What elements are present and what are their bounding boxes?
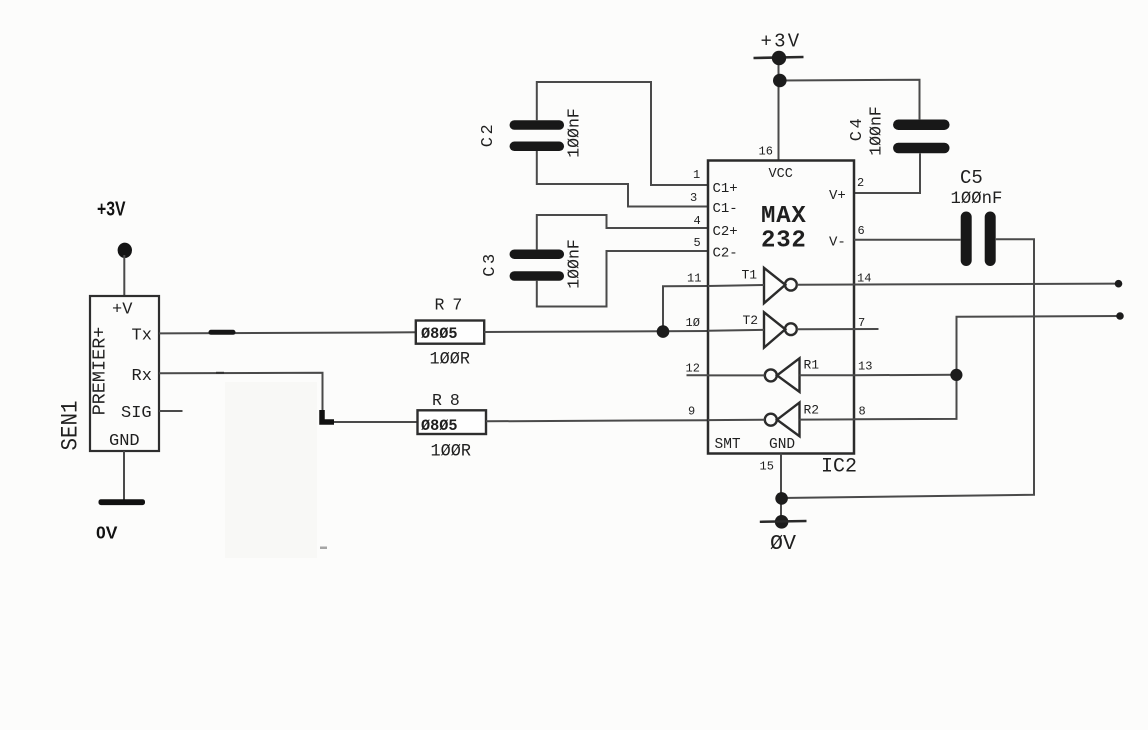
svg-text:1ØØR: 1ØØR (430, 350, 471, 370)
svg-text:8: 8 (859, 405, 866, 419)
wire +3V branch to C4 (780, 80, 920, 120)
wire junction up to pin 11 (663, 286, 708, 332)
wire C5 right to ground rail (781, 239, 1034, 498)
svg-text:Ø8Ø5: Ø8Ø5 (421, 325, 458, 343)
scan artifact grey band (225, 382, 317, 558)
svg-text:C3: C3 (481, 251, 500, 276)
svg-text:R8: R8 (432, 391, 468, 410)
svg-text:1ØØnF: 1ØØnF (867, 106, 886, 156)
svg-text:+3V: +3V (97, 199, 126, 221)
svg-text:0V: 0V (96, 522, 118, 542)
IC U: IC2 MAX232 body (708, 161, 854, 454)
wire IC2 pin 15 to 0V (780, 454, 782, 522)
wire tick mark on Rx (216, 372, 224, 374)
svg-text:+V: +V (112, 301, 133, 320)
svg-text:C2+: C2+ (713, 224, 738, 240)
svg-text:1ØØnF: 1ØØnF (565, 108, 584, 158)
svg-text:14: 14 (857, 272, 871, 286)
power +3V symbol (left, SEN1) (97, 199, 132, 259)
wire SEN1 +V to +3V (123, 255, 125, 296)
svg-text:2: 2 (857, 176, 864, 190)
wire SEN1 GND down (123, 451, 125, 500)
wire R7 to IC2 pin 10 (484, 331, 708, 332)
svg-text:11: 11 (687, 272, 701, 286)
wire net Rx: SEN1 to R8 (159, 373, 418, 422)
svg-text:9: 9 (688, 405, 695, 419)
svg-text:GND: GND (109, 432, 140, 451)
capacitor C2 (479, 108, 584, 158)
svg-text:ØV: ØV (770, 533, 796, 556)
ground 0V symbol (left) (96, 499, 145, 542)
svg-text:16: 16 (759, 145, 773, 159)
svg-text:SEN1: SEN1 (58, 401, 84, 451)
junction node pin13 (950, 369, 962, 381)
wire T2 out pin 7 stub (797, 328, 879, 330)
wire C2 bottom to IC2 pin 3 (537, 151, 708, 207)
node dot right end pin14 net (1115, 280, 1123, 288)
wire C2 top to IC2 pin 1 (537, 82, 708, 185)
svg-text:C2: C2 (479, 122, 498, 147)
svg-text:V+: V+ (829, 188, 846, 204)
wire C4 bottom to IC2 pin 2 (854, 153, 920, 193)
resistor R8 (418, 391, 487, 462)
svg-text:SIG: SIG (121, 404, 152, 423)
svg-text:C1+: C1+ (713, 181, 738, 197)
capacitor C5 (951, 167, 1003, 261)
svg-text:C1-: C1- (713, 201, 738, 217)
junction node on pin10 net (657, 325, 670, 338)
receiver R2 (708, 403, 854, 437)
svg-text:Tx: Tx (132, 327, 152, 346)
wire R8 to IC2 pin 9 (486, 420, 708, 421)
wire T1 out pin 14 to right node (797, 284, 1119, 285)
wire net Tx: SEN1 to R7 (159, 332, 417, 333)
svg-text:1ØØnF: 1ØØnF (951, 190, 1003, 209)
capacitor C3 (481, 239, 584, 289)
wire C3 bottom to IC2 pin 5 (537, 251, 708, 307)
svg-text:6: 6 (858, 224, 865, 238)
wire +3V to IC2 pin 16 (778, 58, 780, 161)
svg-text:15: 15 (760, 460, 774, 474)
capacitor C4 (848, 106, 944, 156)
svg-text:GND: GND (769, 437, 795, 453)
svg-text:1ØØR: 1ØØR (431, 442, 472, 462)
wire pin 13 to junction (854, 374, 957, 376)
svg-text:IC2: IC2 (821, 456, 857, 479)
svg-text:PREMIER+: PREMIER+ (90, 327, 111, 416)
wire thick mark on Tx (211, 330, 233, 335)
svg-text:R1: R1 (804, 358, 820, 373)
svg-text:7: 7 (858, 316, 865, 330)
wire pin13/pin8 net vertical with right branch (854, 316, 1120, 419)
svg-text:3: 3 (690, 191, 697, 205)
svg-text:VCC: VCC (769, 167, 793, 182)
node dot right end net (1116, 312, 1124, 320)
svg-text:12: 12 (686, 362, 700, 376)
svg-text:R2: R2 (804, 403, 820, 418)
svg-text:1ØØnF: 1ØØnF (565, 239, 584, 289)
resistor R7 (416, 296, 484, 370)
svg-text:R7: R7 (435, 296, 471, 315)
power +3V symbol (IC2) (754, 31, 804, 88)
svg-text:+3V: +3V (761, 31, 802, 53)
svg-text:4: 4 (694, 214, 701, 228)
wire thick corner mark (322, 410, 334, 422)
ground 0V symbol (IC2) (760, 515, 807, 556)
wire IC2 pin 6 to C5 (854, 239, 961, 241)
wire SIG stub (159, 410, 183, 412)
svg-text:232: 232 (761, 228, 807, 255)
buffer T1 (708, 268, 797, 304)
scan artifact dash (320, 547, 327, 550)
svg-text:C2-: C2- (713, 246, 738, 262)
svg-text:C5: C5 (960, 167, 983, 189)
receiver R1 (708, 358, 854, 392)
svg-text:Rx: Rx (132, 367, 152, 386)
buffer T2 (708, 312, 797, 347)
connector SEN1 (58, 296, 160, 451)
svg-text:5: 5 (694, 236, 701, 250)
junction node pin15/gnd rail (775, 492, 788, 505)
svg-text:1: 1 (693, 168, 700, 182)
svg-text:Ø8Ø5: Ø8Ø5 (421, 417, 458, 435)
svg-text:SMT: SMT (715, 437, 741, 453)
svg-text:MAX: MAX (761, 203, 807, 230)
wire R1 pin 12 stub (687, 374, 709, 376)
svg-text:1Ø: 1Ø (686, 316, 700, 330)
svg-text:V-: V- (829, 235, 846, 251)
svg-text:C4: C4 (848, 116, 867, 141)
svg-text:T2: T2 (743, 313, 759, 328)
svg-text:T1: T1 (742, 268, 758, 283)
wire C3 top to IC2 pin 4 (537, 215, 708, 249)
svg-text:13: 13 (858, 360, 872, 374)
